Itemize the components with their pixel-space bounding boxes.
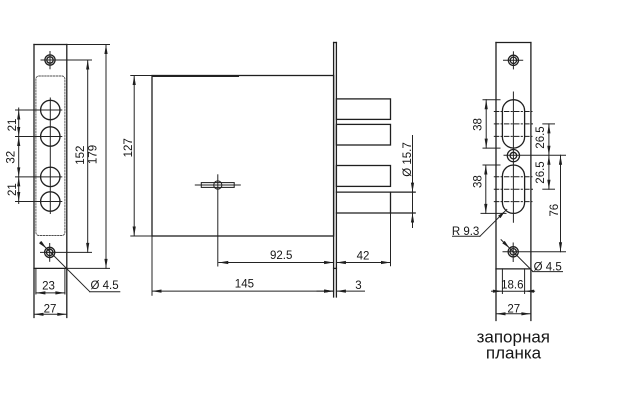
svg-text:38: 38	[473, 175, 485, 188]
svg-text:127: 127	[123, 138, 135, 157]
svg-text:145: 145	[235, 278, 254, 290]
svg-text:21: 21	[7, 183, 19, 196]
svg-text:76: 76	[549, 204, 561, 217]
svg-text:32: 32	[6, 151, 18, 164]
svg-text:26.5: 26.5	[535, 126, 547, 148]
svg-text:Ø 4.5: Ø 4.5	[91, 280, 119, 292]
svg-text:Ø 15.7: Ø 15.7	[402, 142, 414, 177]
svg-text:152: 152	[75, 146, 87, 165]
svg-text:планка: планка	[486, 343, 542, 362]
svg-text:18.6: 18.6	[501, 280, 523, 292]
svg-text:26.5: 26.5	[535, 161, 547, 183]
svg-text:23: 23	[42, 280, 55, 292]
svg-text:42: 42	[357, 250, 370, 262]
svg-text:92.5: 92.5	[270, 250, 292, 262]
svg-text:179: 179	[88, 145, 100, 164]
svg-text:3: 3	[355, 280, 361, 292]
svg-text:38: 38	[473, 118, 485, 131]
svg-text:27: 27	[44, 304, 57, 316]
svg-text:Ø 4.5: Ø 4.5	[534, 261, 562, 273]
svg-text:27: 27	[507, 303, 520, 315]
svg-text:21: 21	[7, 119, 19, 132]
